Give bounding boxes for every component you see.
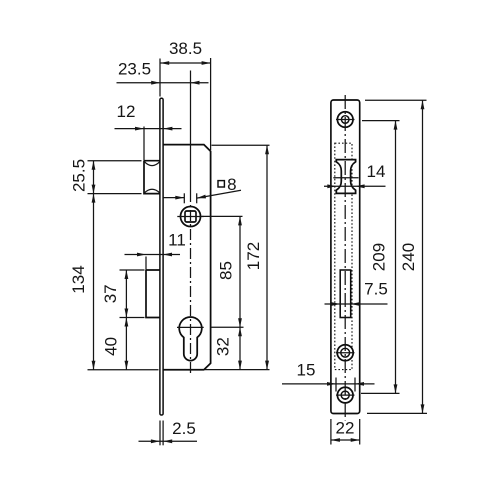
dimension 172	[205, 145, 270, 369]
dimension 14	[324, 162, 386, 188]
centerline of lock (side view)	[190, 71, 192, 203]
hub crosshair	[177, 216, 203, 218]
svg-text:32: 32	[214, 337, 233, 356]
faceplate (side view)	[160, 98, 163, 415]
bottom screw hole	[336, 387, 355, 403]
svg-text:23.5: 23.5	[118, 60, 151, 79]
svg-text:22: 22	[336, 419, 355, 438]
svg-text:240: 240	[399, 243, 418, 271]
svg-text:40: 40	[102, 337, 121, 356]
dimension square 8 callout	[164, 175, 242, 203]
svg-text:2.5: 2.5	[172, 419, 196, 438]
svg-text:8: 8	[227, 175, 236, 194]
dimension 85	[202, 216, 244, 327]
dimension 37	[101, 270, 144, 318]
lock case (side view)	[163, 145, 211, 370]
dimension 2.5	[139, 419, 198, 445]
svg-text:15: 15	[297, 361, 316, 380]
dimension 240	[365, 100, 427, 413]
faceplate (front view)	[331, 100, 360, 414]
dimension 40	[102, 318, 129, 370]
svg-text:37: 37	[101, 284, 120, 303]
dimension 22	[331, 419, 360, 445]
svg-text:7.5: 7.5	[364, 280, 388, 299]
dimension 7.5	[325, 280, 388, 306]
dimension 32	[214, 327, 242, 369]
svg-text:38.5: 38.5	[169, 39, 202, 58]
dimension 25.5	[70, 159, 142, 194]
latch bolt (front view)	[336, 160, 355, 194]
spindle square 8mm	[185, 211, 196, 222]
svg-text:25.5: 25.5	[70, 159, 89, 192]
hidden lock case outline (front view, dotted)	[335, 143, 352, 369]
dimension 12	[115, 102, 182, 161]
svg-text:11: 11	[168, 231, 186, 250]
svg-text:134: 134	[69, 265, 88, 293]
dimension 38.5	[160, 39, 211, 150]
centerline (front view)	[344, 95, 346, 421]
svg-text:85: 85	[217, 261, 236, 280]
euro cylinder hole	[179, 317, 202, 361]
dimension 15	[282, 361, 375, 392]
svg-text:12: 12	[117, 102, 136, 121]
svg-text:172: 172	[244, 242, 263, 270]
middle screw hole	[336, 345, 355, 361]
top screw hole	[336, 112, 355, 128]
dimension 134	[69, 194, 158, 370]
dimension 11	[125, 231, 186, 271]
dimension 209	[361, 121, 400, 394]
svg-text:209: 209	[370, 243, 389, 271]
latch bolt (side view)	[144, 161, 160, 194]
spindle hub circle	[181, 207, 201, 227]
svg-text:14: 14	[367, 162, 386, 181]
latch crosshair	[333, 177, 358, 179]
cylinder crosshair	[177, 326, 204, 328]
deadbolt slot (front view)	[340, 270, 351, 318]
dimension 23.5	[117, 60, 209, 85]
deadbolt (side view)	[146, 270, 160, 318]
